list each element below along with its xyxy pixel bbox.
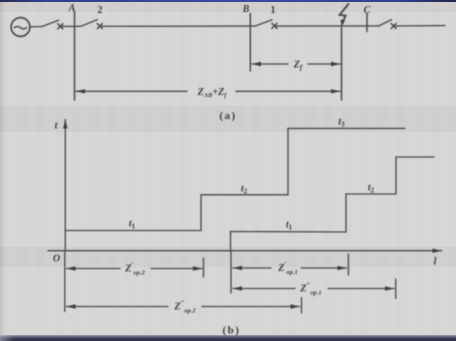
svg-text:t2: t2 [368, 183, 375, 195]
svg-text:C: C [364, 5, 371, 16]
wire to bus A [61, 25, 80, 27]
svg-text:(a): (a) [219, 110, 236, 122]
breaker 2 blade [81, 20, 97, 27]
svg-text:A: A [68, 3, 76, 14]
t axis extension below origin [64, 251, 66, 312]
dimension Z''op.2 [67, 306, 169, 308]
top blue video border [0, 0, 456, 2]
generator G [11, 18, 30, 37]
breaker contact x (left of bus A) [58, 24, 63, 29]
tick end of Z''op.2 [301, 298, 303, 314]
staircase characteristic protection 1 [231, 157, 435, 251]
l axis [48, 250, 442, 252]
svg-text:Z′op.2: Z′op.2 [124, 262, 145, 277]
svg-text:1: 1 [271, 5, 276, 16]
tick end of Z'op.2 [203, 258, 205, 277]
wire to right edge [396, 25, 446, 27]
staircase characteristic protection 2 [65, 128, 405, 230]
dimension Z''op.1 [233, 288, 295, 290]
svg-text:t1: t1 [286, 220, 293, 232]
bottom dark video border [0, 335, 456, 341]
svg-text:t3: t3 [338, 117, 345, 129]
breaker 1 contact x [272, 23, 277, 28]
svg-text:l: l [434, 257, 437, 268]
svg-text:B: B [242, 4, 250, 15]
svg-text:t: t [55, 121, 59, 132]
svg-text:t2: t2 [241, 184, 248, 196]
svg-text:Z′op.1: Z′op.1 [277, 261, 297, 276]
breaker blade (left of bus A) [42, 20, 59, 26]
svg-text:ZAB+Zf: ZAB+Zf [197, 87, 228, 99]
breaker 1 blade [255, 20, 272, 26]
svg-text:2: 2 [98, 5, 103, 16]
svg-text:(b): (b) [223, 325, 241, 337]
svg-text:Z″op.1: Z″op.1 [299, 282, 321, 297]
svg-text:O: O [53, 254, 60, 265]
dimension Z'op.2 [67, 268, 121, 270]
bus B [249, 14, 251, 72]
svg-text:Zf: Zf [293, 59, 303, 71]
dimension Z'op.1 [233, 267, 271, 269]
generator tilde mark [14, 27, 26, 29]
breaker contact x (right of bus C) [391, 24, 396, 29]
bus C [366, 14, 368, 32]
svg-text:t1: t1 [129, 219, 136, 231]
bus A [74, 11, 76, 100]
wire bus A to bus B [100, 25, 255, 27]
wire generator to breaker QF [30, 26, 42, 28]
subtle scan shading bands [0, 106, 456, 132]
tick end of Z'op.1 [347, 254, 349, 275]
breaker 2 contact x [97, 24, 102, 29]
dimension Z_f line B to fault [252, 63, 288, 65]
tick below bus B drop [230, 251, 232, 293]
tick end of Z''op.1 [395, 279, 397, 299]
fault line below fault point [341, 26, 343, 100]
dimension Z_AB+Z_f line A to fault [76, 90, 187, 92]
wire bus B to bus C [276, 25, 379, 27]
fault lightning arrow [340, 4, 349, 24]
t axis [64, 120, 66, 251]
breaker blade (right of bus C) [379, 20, 392, 26]
svg-text:Z″op.2: Z″op.2 [173, 300, 196, 315]
